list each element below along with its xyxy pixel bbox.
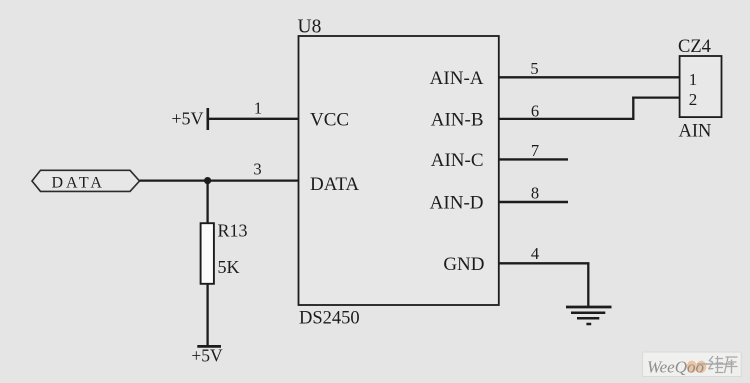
IC U8 (DS2450) body (299, 36, 499, 305)
svg-text:1: 1 (689, 70, 698, 89)
svg-text:2: 2 (689, 90, 698, 109)
svg-text:6: 6 (531, 102, 539, 121)
ground symbol (566, 307, 612, 324)
wire R13 to +5V (206, 284, 208, 347)
svg-text:AIN-A: AIN-A (430, 68, 484, 89)
wire AIN-B to CZ4 pin2 (632, 96, 679, 98)
svg-text:5K: 5K (218, 257, 240, 277)
svg-text:7: 7 (531, 141, 539, 160)
svg-text:3: 3 (253, 160, 261, 179)
connector CZ4 (680, 56, 722, 117)
wire pin 4 GND horizontal (499, 262, 590, 264)
svg-text:DATA: DATA (310, 174, 359, 195)
svg-text:AIN-C: AIN-C (431, 150, 484, 171)
power +5V (top left) (171, 108, 207, 130)
wire pin 5 AIN-A to CZ4 pin1 (499, 76, 680, 78)
wire AIN-B vertical riser (632, 97, 634, 121)
svg-text:8: 8 (531, 184, 539, 203)
wire pin 6 AIN-B horizontal (499, 118, 635, 120)
svg-text:VCC: VCC (310, 110, 349, 131)
wire DATA node to R13 (206, 181, 208, 224)
svg-text:AIN-B: AIN-B (431, 110, 484, 131)
port DATA flag (32, 170, 140, 191)
svg-text:AIN: AIN (679, 122, 712, 142)
svg-text:U8: U8 (298, 17, 322, 38)
svg-text:AIN-D: AIN-D (430, 193, 484, 214)
svg-text:R13: R13 (218, 221, 248, 241)
svg-text:1: 1 (254, 99, 262, 118)
svg-text:5: 5 (530, 59, 538, 78)
wire pin 3 DATA (140, 179, 299, 181)
svg-text:+5V: +5V (191, 346, 223, 366)
resistor R13 (201, 223, 214, 284)
svg-text:4: 4 (531, 244, 539, 263)
wire pin 8 AIN-D stub (499, 201, 568, 203)
svg-text:WeeQoo: WeeQoo (647, 357, 704, 376)
wire pin 7 AIN-C stub (499, 158, 568, 160)
junction node DATA/R13 (204, 177, 211, 184)
watermark WeeQoo box (643, 352, 742, 377)
wire GND vertical drop (587, 263, 589, 307)
wire pin 1 VCC (208, 118, 299, 120)
power +5V (bottom) (191, 346, 223, 366)
svg-text:DATA: DATA (52, 174, 105, 191)
svg-text:+5V: +5V (171, 109, 203, 129)
svg-text:GND: GND (443, 254, 484, 275)
svg-text:DS2450: DS2450 (299, 309, 360, 329)
svg-text:CZ4: CZ4 (678, 37, 711, 57)
